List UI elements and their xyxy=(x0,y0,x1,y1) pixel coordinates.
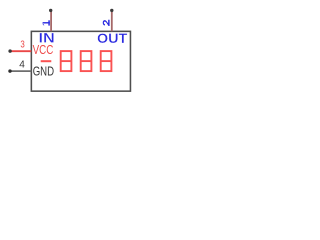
svg-text:GND: GND xyxy=(33,64,54,79)
component body U? xyxy=(31,31,130,91)
svg-text:4: 4 xyxy=(19,58,25,70)
pin 4 (GND) wire xyxy=(10,70,31,72)
pin 3 (VCC) wire xyxy=(10,50,31,52)
svg-text:3: 3 xyxy=(20,40,25,51)
pin 4 end dot xyxy=(8,69,11,72)
svg-text:OUT: OUT xyxy=(97,30,128,46)
display digit 2 xyxy=(81,51,92,71)
display digit 3 xyxy=(101,51,112,71)
display digit 1 xyxy=(61,51,72,71)
pin 2 (OUT) wire xyxy=(111,10,113,31)
pin 3 end dot xyxy=(8,49,11,52)
pin 1 end dot xyxy=(49,9,52,12)
pin 2 end dot xyxy=(110,9,113,12)
svg-text:VCC: VCC xyxy=(33,42,54,57)
display minus segment xyxy=(41,60,52,62)
pin 1 (IN) wire xyxy=(50,10,52,31)
pin 1 number xyxy=(43,20,50,25)
pin 2 number xyxy=(103,20,110,26)
